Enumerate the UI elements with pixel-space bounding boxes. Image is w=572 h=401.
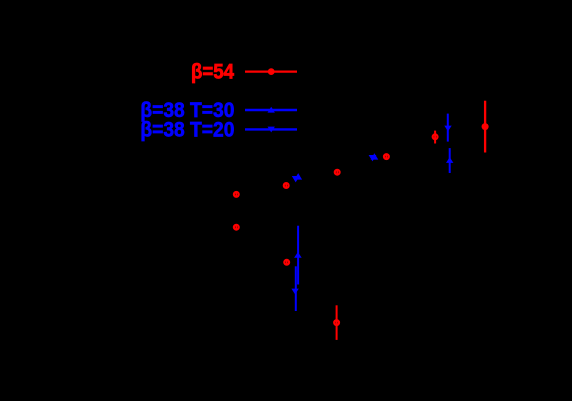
- red data point R1: [234, 191, 239, 197]
- blue point B3 error bar: [447, 114, 449, 142]
- red data point R2: [234, 224, 239, 230]
- svg-text:β=38 T=20: β=38 T=20: [140, 118, 234, 142]
- legend marker blue down-triangle: [268, 127, 275, 133]
- blue point B4 up-triangle: [446, 157, 453, 163]
- legend marker blue up-triangle: [268, 107, 275, 113]
- legend line blue T30: [245, 109, 297, 111]
- blue point B6 down-triangle: [291, 289, 298, 295]
- blue pair B1: down-triangle T20: [292, 176, 300, 182]
- legend marker red circle: [268, 68, 275, 75]
- blue point B6 error bar: [295, 266, 297, 311]
- red data point R5: [384, 154, 389, 160]
- red data point R9 with error bar: [334, 305, 339, 340]
- blue pair B2: down-triangle T20: [369, 155, 377, 161]
- blue point B5 up-triangle: [294, 252, 302, 258]
- red data point R8: [284, 259, 289, 265]
- red data point R6 with error bar: [433, 131, 438, 144]
- red data point R3: [284, 183, 289, 189]
- blue pair B1: up-triangle T30: [294, 173, 302, 180]
- red data point R7 with error bar: [482, 101, 489, 153]
- blue point B5 error bar: [297, 226, 299, 285]
- blue point B3 down-triangle: [444, 126, 451, 132]
- legend line red: [245, 70, 297, 72]
- blue pair B2: up-triangle T30: [371, 153, 379, 159]
- red data point R4: [335, 169, 340, 175]
- svg-text:β=54: β=54: [191, 60, 234, 84]
- blue point B4 error bar: [449, 148, 451, 173]
- legend line blue T20: [245, 128, 297, 130]
